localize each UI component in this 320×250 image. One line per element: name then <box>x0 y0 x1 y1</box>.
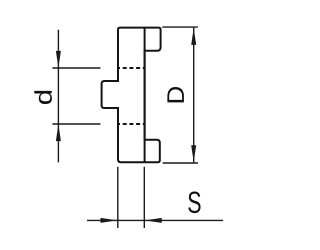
dimension d: lower arrowhead <box>56 124 61 141</box>
dimension S: right arrowhead <box>145 218 162 223</box>
part outline <box>102 28 161 163</box>
hidden (dashed) line bottom <box>118 123 145 125</box>
dimension d: lower extension line <box>52 123 100 125</box>
dimension S: right extension line <box>143 167 145 228</box>
dimension d: upper arrowhead <box>56 51 61 68</box>
dimension d: upper extension line <box>52 67 100 69</box>
body right edge line <box>144 28 146 163</box>
hidden (dashed) line top <box>118 67 145 69</box>
dimension S: dimension line <box>87 219 223 221</box>
dimension D: bottom extension line <box>163 162 198 164</box>
dimension D: bottom arrowhead <box>191 145 196 162</box>
label d <box>34 91 52 104</box>
dimension D: top arrowhead <box>191 28 196 45</box>
dimension D: top extension line <box>162 26 198 28</box>
dimension d: dimension line <box>57 30 59 163</box>
dimension S: left arrowhead <box>101 218 118 223</box>
label D <box>167 87 184 102</box>
dimension D: dimension line <box>193 28 195 163</box>
dimension S: left extension line <box>117 167 119 228</box>
label S <box>188 192 200 214</box>
